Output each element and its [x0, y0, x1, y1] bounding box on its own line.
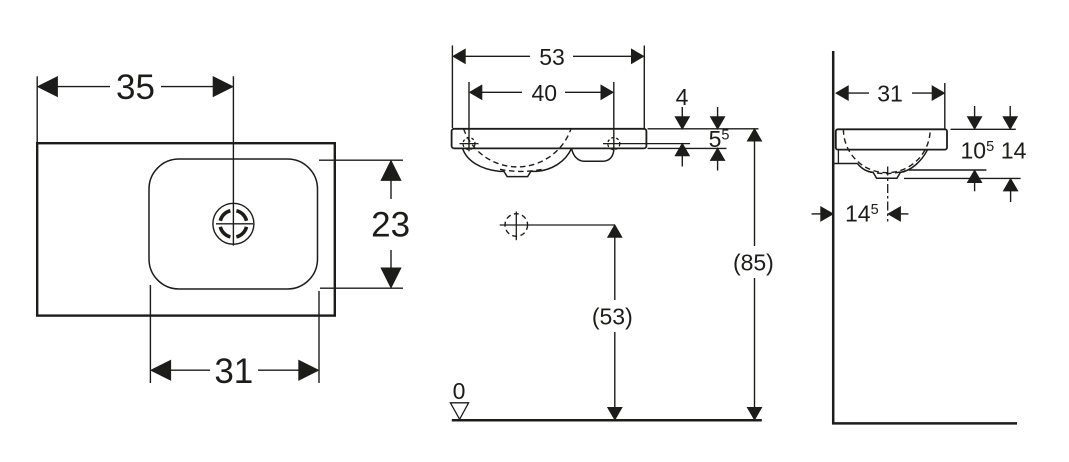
- dimension 35 extension line left: [36, 76, 38, 142]
- datum triangle: [450, 403, 468, 420]
- dimension 10.5 arrow up: [968, 171, 981, 183]
- bowl bottom extension line (10.5): [909, 169, 986, 171]
- fixing hole left crosshair: [460, 143, 479, 145]
- fixing hole level extension line: [603, 143, 690, 145]
- wall bracket vertical: [837, 150, 839, 164]
- basin bowl rounded rectangle: [149, 159, 318, 289]
- svg-text:(53): (53): [592, 304, 633, 330]
- dimension 40 extension line right: [613, 82, 615, 151]
- svg-text:14: 14: [1001, 138, 1027, 164]
- svg-text:23: 23: [371, 206, 410, 245]
- dimension 35 arrow right: [213, 77, 232, 96]
- dimension 14 arrow down: [1009, 106, 1011, 127]
- dimension (85) line: [748, 129, 761, 141]
- drain recess hidden line (dashed, front): [500, 169, 545, 172]
- washbasin outer outline (top view): [37, 143, 335, 315]
- dimension 40 arrow left: [470, 86, 482, 99]
- dimension 31 arrow right: [932, 86, 944, 99]
- svg-text:35: 35: [116, 68, 155, 107]
- dimension 40 arrow right: [601, 86, 613, 99]
- connector line drain to (53): [534, 224, 615, 226]
- drain centerline (side): [887, 167, 889, 222]
- dimension 31 arrow right: [299, 361, 318, 380]
- dimension 53 arrow right: [632, 50, 644, 63]
- dimension 14.5 arrow left (outside): [812, 213, 822, 215]
- dimension 31 arrow left: [151, 361, 170, 380]
- dimension 53 arrow left: [453, 50, 465, 63]
- dimension 31 extension line right: [944, 83, 946, 129]
- drain position crosshair vertical: [515, 212, 517, 241]
- dimension 31 line: [838, 92, 869, 94]
- dimension 53 extension line right: [643, 46, 645, 129]
- dimension 23 arrow down: [382, 268, 401, 287]
- dimension 53 line: [454, 55, 530, 57]
- svg-text:31: 31: [877, 81, 903, 107]
- bowl outer profile (side): [858, 150, 928, 179]
- dimension 4 arrow down: [681, 107, 683, 127]
- dimension 35 arrow left: [38, 77, 57, 96]
- slab top extension line right: [648, 128, 759, 130]
- dimension 14.5 arrow right (outside): [889, 207, 901, 220]
- bowl inner rim hidden line (dashed, front): [464, 129, 571, 167]
- drain outer circle: [213, 203, 254, 244]
- dimension (53) line: [608, 225, 621, 237]
- dimension 40 extension line left: [468, 82, 470, 151]
- dimension 40 line: [471, 91, 522, 93]
- dimension 23 line: [390, 161, 392, 199]
- siphon shelf profile (front): [572, 148, 614, 161]
- dimension 31 extension line left: [149, 285, 151, 383]
- fixing hole left (dashed circle): [463, 138, 475, 150]
- svg-text:31: 31: [214, 352, 253, 391]
- drain position hidden circle (front): [505, 214, 528, 237]
- svg-text:145: 145: [845, 200, 879, 226]
- dimension 10.5 arrow down: [974, 106, 976, 127]
- wall bracket bottom: [834, 163, 857, 165]
- slab bottom extension line right: [648, 147, 727, 149]
- dimension 23 extension line bottom: [320, 287, 403, 289]
- fixing hole right (dashed circle): [608, 138, 620, 150]
- svg-text:40: 40: [532, 80, 558, 106]
- dimension 31 extension line right: [318, 291, 320, 383]
- dimension 4 arrow up: [676, 144, 689, 156]
- drain inner ring (4 arcs): [220, 211, 246, 237]
- dimension 23 arrow up: [382, 161, 401, 180]
- dimension 14 arrow up: [1004, 179, 1017, 191]
- drain recess hidden line (dashed, side): [868, 171, 905, 174]
- wall and floor line: [833, 51, 1017, 423]
- drain crosshair / dimension-35 right extension line: [232, 76, 234, 245]
- dimension 5.5 arrow down: [717, 107, 719, 127]
- floor line (front): [452, 419, 762, 422]
- rim slab (side): [836, 129, 947, 149]
- svg-text:0: 0: [453, 378, 466, 404]
- dimension 5.5 arrow up: [711, 149, 724, 161]
- svg-text:105: 105: [961, 138, 995, 164]
- dimension 53 extension line left: [451, 46, 453, 129]
- bowl outer profile (front): [463, 148, 572, 176]
- drain bottom extension line (14): [904, 177, 1021, 179]
- dimension 31 line: [152, 369, 210, 371]
- drain crosshair horizontal: [216, 223, 253, 225]
- svg-text:53: 53: [539, 44, 565, 70]
- dimension 23 extension line top: [319, 159, 403, 161]
- drain position crosshair horizontal: [500, 224, 534, 226]
- svg-text:(85): (85): [733, 249, 774, 275]
- dimension 35 line: [40, 86, 110, 88]
- bowl inner rim hidden line (dashed, side): [843, 129, 930, 172]
- svg-text:4: 4: [676, 84, 689, 110]
- washbasin rim slab (front): [452, 129, 647, 149]
- dimension 31 arrow left: [836, 86, 848, 99]
- slab top extension line (side): [951, 128, 1016, 130]
